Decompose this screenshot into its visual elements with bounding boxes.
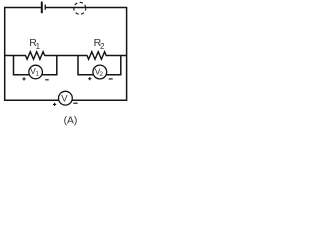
wire: outer loop (top with battery gap, left, bottom, right): [5, 8, 127, 101]
wire: right sub-loop around R2: [78, 56, 121, 75]
polarity + of V2: [88, 77, 91, 80]
polarity + of bottom voltmeter: [53, 103, 56, 106]
svg-text:1: 1: [35, 71, 39, 78]
svg-text:2: 2: [99, 71, 103, 78]
polarity - of V2: [109, 78, 113, 80]
svg-text:2: 2: [100, 42, 105, 51]
label R1: [29, 37, 40, 51]
svg-text:(A): (A): [64, 116, 78, 127]
polarity + of V1: [22, 77, 25, 80]
battery: long plate: [41, 2, 43, 14]
battery: short plate: [44, 4, 46, 9]
polarity - of bottom voltmeter: [73, 102, 77, 104]
label R2: [94, 37, 105, 51]
polarity - of V1: [45, 79, 48, 81]
wire: left sub-loop around R1: [14, 56, 57, 75]
svg-text:V: V: [61, 94, 68, 105]
wire: middle branch with resistor R1 and resistor R2 zigzags: [5, 52, 127, 60]
svg-text:1: 1: [36, 42, 41, 51]
voltmeter V1: [29, 65, 43, 79]
voltmeter V2: [93, 65, 107, 79]
meter (dashed circle) on top wire: [74, 2, 86, 14]
voltmeter V (bottom, across battery): [59, 91, 73, 105]
